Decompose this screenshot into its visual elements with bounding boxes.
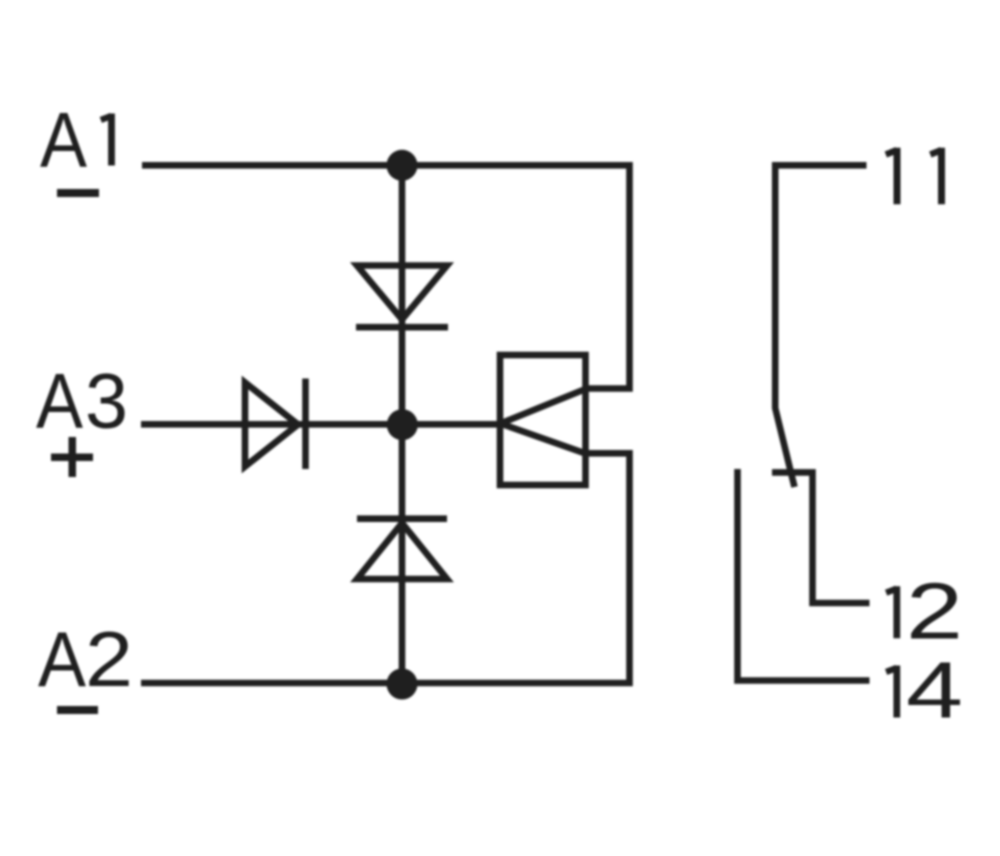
svg-text:A: A	[40, 95, 87, 183]
svg-text:3: 3	[85, 357, 128, 445]
svg-text:2: 2	[85, 615, 133, 703]
svg-text:A: A	[36, 357, 83, 445]
svg-text:4: 4	[906, 646, 963, 735]
svg-text:2: 2	[906, 566, 963, 655]
svg-text:A: A	[38, 615, 86, 703]
